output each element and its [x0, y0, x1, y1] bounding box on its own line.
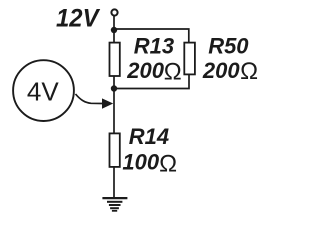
svg-text:Ω: Ω	[159, 151, 177, 178]
svg-text:4V: 4V	[27, 77, 59, 107]
svg-text:200: 200	[202, 58, 240, 83]
resistor R14 body	[110, 133, 120, 167]
svg-text:100: 100	[122, 149, 159, 174]
wire middle node to R14	[113, 89, 115, 134]
arrow callout from 4V bubble to middle node	[76, 94, 104, 104]
junction top node	[111, 27, 117, 33]
svg-text:Ω: Ω	[240, 58, 258, 85]
source/annotation bubble 4V	[13, 60, 74, 121]
svg-text:R14: R14	[129, 124, 169, 149]
svg-text:R13: R13	[134, 34, 174, 59]
svg-text:R50: R50	[208, 33, 249, 58]
resistor R13 body	[110, 43, 120, 76]
terminal (open circle) at 12V input	[111, 9, 117, 15]
wire terminal to top node	[113, 16, 115, 31]
wire R14 to ground	[113, 167, 115, 198]
svg-text:Ω: Ω	[164, 59, 182, 86]
resistor R50 body (right branch)	[184, 43, 195, 75]
ground symbol	[102, 198, 127, 211]
wire top node to right branch	[114, 29, 189, 43]
wire R50 bottom to middle node	[114, 75, 189, 89]
junction middle node	[111, 85, 117, 91]
arrowhead	[102, 98, 113, 108]
wire R13 to middle node	[113, 76, 115, 89]
svg-text:12V: 12V	[56, 5, 101, 33]
svg-text:200: 200	[126, 58, 164, 83]
wire top node to R13	[113, 30, 115, 43]
